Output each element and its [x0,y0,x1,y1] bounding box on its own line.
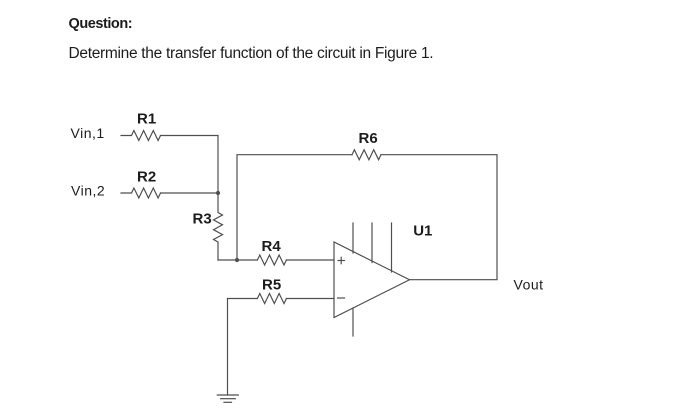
op-amp U1 [334,242,410,318]
resistor R2 [121,188,161,198]
wire [381,155,497,280]
svg-text:R3: R3 [193,211,212,228]
wire [286,259,334,261]
svg-text:R6: R6 [359,130,378,147]
wire [227,299,229,396]
svg-text:U1: U1 [413,222,432,239]
svg-text:Question:: Question: [69,16,133,32]
op-amp power pin 3 [391,223,393,272]
resistor R3 [214,193,223,260]
resistor R6 [352,150,381,160]
op-amp power pin 1 [352,223,354,253]
node junction feedback [235,258,239,262]
resistor R4 [257,255,286,265]
wire [228,298,258,300]
resistor R1 [121,131,161,141]
wire [286,298,334,300]
wire [161,192,219,194]
svg-text:R4: R4 [262,238,282,255]
op-amp power pin 2 [371,223,373,263]
op-amp bottom pin [352,308,354,336]
svg-text:Vin,2: Vin,2 [71,183,105,199]
op-amp minus input marker [338,297,345,299]
wire [237,155,352,260]
wire [161,136,219,194]
ground [217,395,238,402]
svg-text:Determine the transfer functio: Determine the transfer function of the c… [69,45,434,62]
svg-text:Vout: Vout [514,277,544,293]
node junction R1/R2 [216,191,220,195]
svg-text:R5: R5 [262,276,281,293]
svg-text:Vin,1: Vin,1 [71,125,105,141]
svg-text:R2: R2 [137,168,156,185]
resistor R5 [257,294,286,304]
svg-text:R1: R1 [137,110,156,127]
wire [218,259,257,261]
op-amp plus input marker [338,257,345,263]
